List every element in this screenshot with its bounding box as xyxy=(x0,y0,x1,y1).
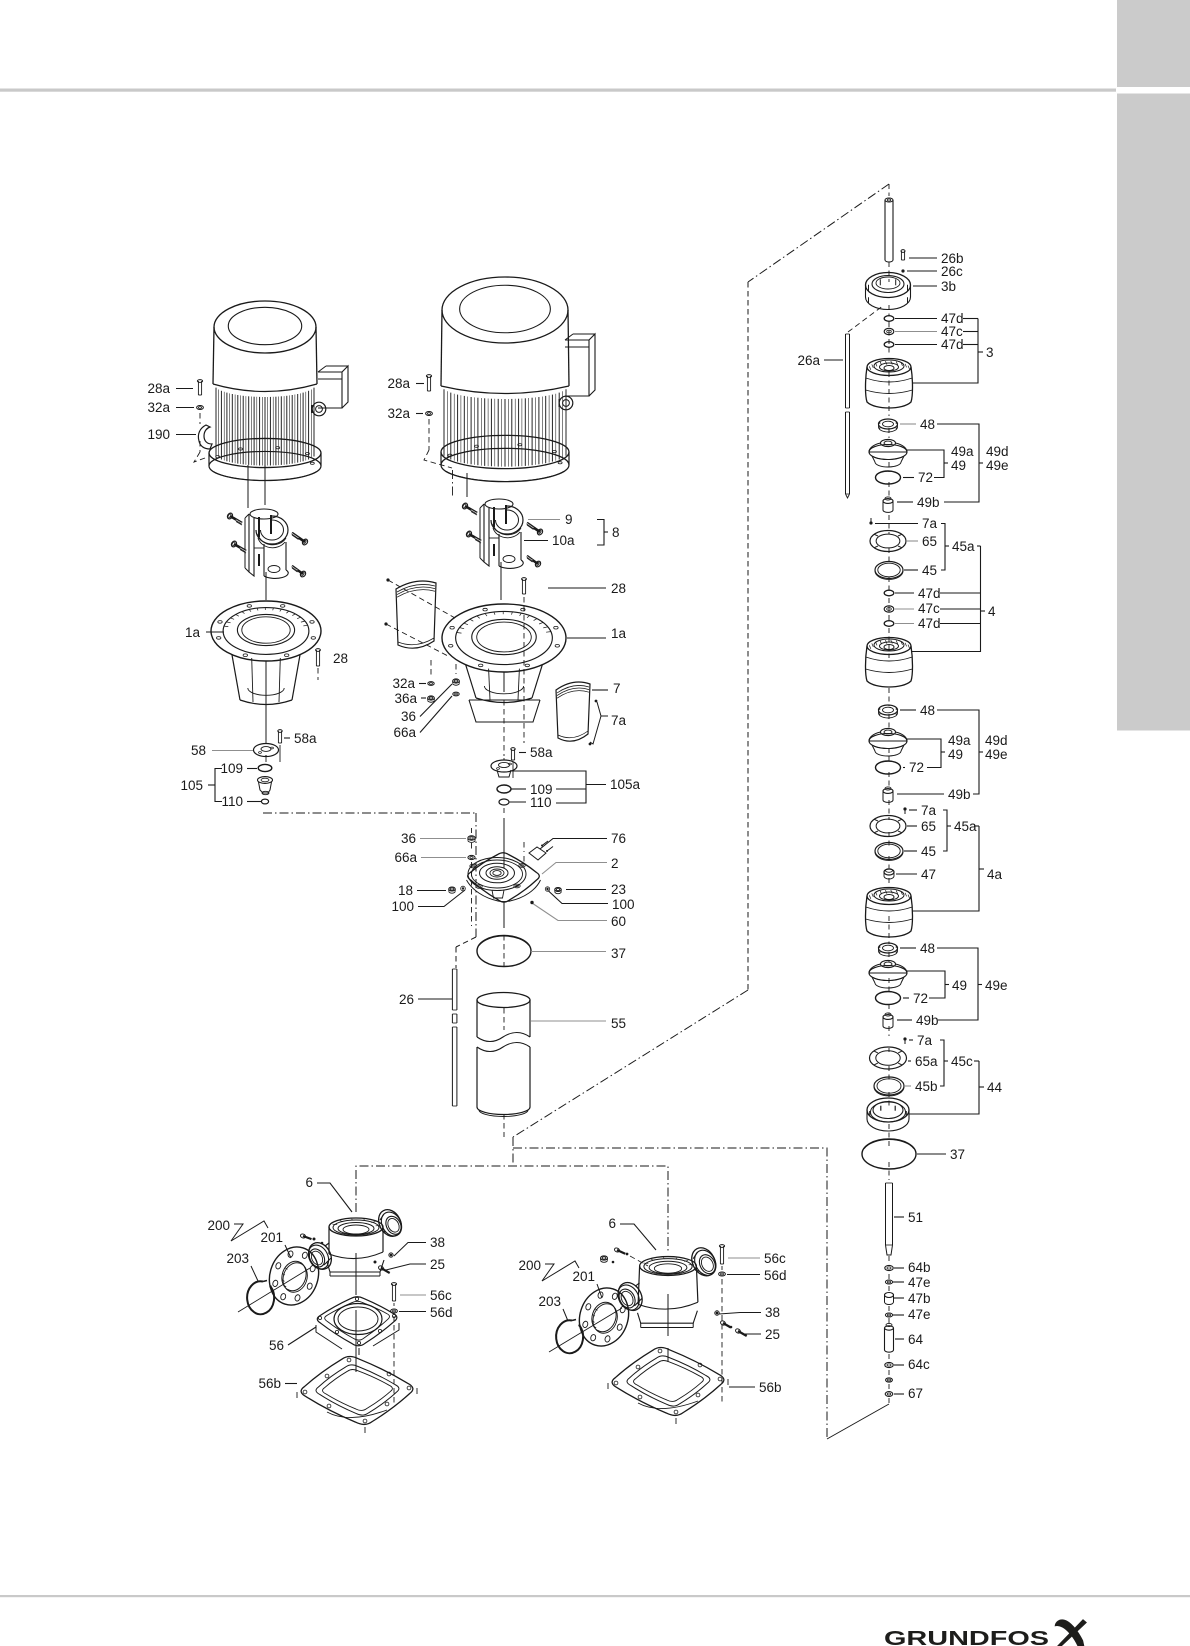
svg-text:28: 28 xyxy=(333,651,348,666)
svg-text:64b: 64b xyxy=(908,1260,931,1275)
svg-text:2: 2 xyxy=(611,856,619,871)
svg-text:28a: 28a xyxy=(387,376,410,391)
svg-text:26: 26 xyxy=(399,992,414,1007)
svg-text:49e: 49e xyxy=(985,747,1008,762)
svg-text:56d: 56d xyxy=(430,1305,453,1320)
svg-text:32a: 32a xyxy=(147,400,170,415)
svg-text:65a: 65a xyxy=(915,1054,938,1069)
svg-text:66a: 66a xyxy=(393,725,416,740)
svg-text:26c: 26c xyxy=(941,264,963,279)
svg-text:109: 109 xyxy=(220,761,243,776)
svg-text:47d: 47d xyxy=(918,616,941,631)
svg-text:10a: 10a xyxy=(552,533,575,548)
svg-text:49b: 49b xyxy=(948,787,971,802)
svg-text:56b: 56b xyxy=(759,1380,782,1395)
svg-text:9: 9 xyxy=(565,512,573,527)
svg-text:56b: 56b xyxy=(258,1376,281,1391)
svg-text:48: 48 xyxy=(920,417,935,432)
svg-text:32a: 32a xyxy=(392,676,415,691)
svg-text:58a: 58a xyxy=(294,731,317,746)
svg-text:23: 23 xyxy=(611,882,626,897)
svg-text:1a: 1a xyxy=(185,625,201,640)
svg-text:65: 65 xyxy=(921,819,936,834)
svg-text:GRUNDFOS: GRUNDFOS xyxy=(884,1628,1049,1646)
svg-text:47c: 47c xyxy=(918,601,940,616)
svg-text:3: 3 xyxy=(986,345,994,360)
svg-text:7a: 7a xyxy=(917,1033,933,1048)
svg-text:37: 37 xyxy=(611,946,626,961)
svg-text:6: 6 xyxy=(608,1216,616,1231)
svg-text:26a: 26a xyxy=(797,353,820,368)
svg-text:72: 72 xyxy=(909,760,924,775)
svg-text:49a: 49a xyxy=(951,444,974,459)
svg-text:66a: 66a xyxy=(394,850,417,865)
svg-text:45a: 45a xyxy=(954,819,977,834)
svg-text:72: 72 xyxy=(918,470,933,485)
svg-text:49: 49 xyxy=(948,747,963,762)
svg-text:58a: 58a xyxy=(530,745,553,760)
svg-text:1a: 1a xyxy=(611,626,627,641)
svg-text:105: 105 xyxy=(180,778,203,793)
svg-text:203: 203 xyxy=(226,1251,249,1266)
svg-text:49e: 49e xyxy=(986,458,1009,473)
svg-text:4: 4 xyxy=(988,604,996,619)
svg-text:37: 37 xyxy=(950,1147,965,1162)
svg-text:55: 55 xyxy=(611,1016,626,1031)
svg-text:56d: 56d xyxy=(764,1268,787,1283)
svg-text:7a: 7a xyxy=(922,516,938,531)
svg-text:45b: 45b xyxy=(915,1079,938,1094)
svg-text:6: 6 xyxy=(305,1175,313,1190)
svg-text:67: 67 xyxy=(908,1386,923,1401)
svg-text:201: 201 xyxy=(572,1269,595,1284)
svg-text:49: 49 xyxy=(952,978,967,993)
svg-text:7a: 7a xyxy=(611,713,627,728)
svg-text:45c: 45c xyxy=(951,1054,973,1069)
svg-text:64c: 64c xyxy=(908,1357,930,1372)
svg-text:44: 44 xyxy=(987,1080,1003,1095)
svg-text:49a: 49a xyxy=(948,733,971,748)
svg-text:8: 8 xyxy=(612,525,620,540)
svg-text:51: 51 xyxy=(908,1210,923,1225)
svg-text:190: 190 xyxy=(147,427,170,442)
svg-text:25: 25 xyxy=(430,1257,445,1272)
svg-text:49d: 49d xyxy=(985,733,1008,748)
svg-text:47d: 47d xyxy=(941,337,964,352)
svg-text:200: 200 xyxy=(207,1218,230,1233)
svg-text:32a: 32a xyxy=(387,406,410,421)
svg-text:49: 49 xyxy=(951,458,966,473)
svg-text:38: 38 xyxy=(765,1305,780,1320)
svg-text:110: 110 xyxy=(221,794,243,809)
svg-text:47e: 47e xyxy=(908,1275,931,1290)
svg-text:49b: 49b xyxy=(917,495,940,510)
svg-text:49e: 49e xyxy=(985,978,1008,993)
svg-text:56c: 56c xyxy=(764,1251,786,1266)
svg-text:72: 72 xyxy=(913,991,928,1006)
svg-text:201: 201 xyxy=(260,1230,283,1245)
svg-text:28: 28 xyxy=(611,581,626,596)
svg-text:203: 203 xyxy=(538,1294,561,1309)
svg-text:28a: 28a xyxy=(147,381,170,396)
svg-text:100: 100 xyxy=(391,899,414,914)
svg-text:100: 100 xyxy=(612,897,635,912)
svg-text:60: 60 xyxy=(611,914,626,929)
svg-text:56c: 56c xyxy=(430,1288,452,1303)
svg-text:3b: 3b xyxy=(941,279,956,294)
svg-text:45a: 45a xyxy=(952,539,975,554)
svg-text:58: 58 xyxy=(191,743,206,758)
svg-text:47b: 47b xyxy=(908,1291,931,1306)
svg-text:47e: 47e xyxy=(908,1307,931,1322)
svg-text:45: 45 xyxy=(922,563,937,578)
svg-text:65: 65 xyxy=(922,534,937,549)
svg-text:48: 48 xyxy=(920,703,935,718)
svg-text:64: 64 xyxy=(908,1332,924,1347)
svg-text:48: 48 xyxy=(920,941,935,956)
svg-text:36: 36 xyxy=(401,831,416,846)
svg-text:36a: 36a xyxy=(394,691,417,706)
svg-text:49b: 49b xyxy=(916,1013,939,1028)
svg-text:45: 45 xyxy=(921,844,936,859)
svg-text:76: 76 xyxy=(611,831,626,846)
svg-text:47: 47 xyxy=(921,867,936,882)
svg-text:36: 36 xyxy=(401,709,416,724)
svg-text:25: 25 xyxy=(765,1327,780,1342)
svg-text:200: 200 xyxy=(518,1258,541,1273)
svg-text:47d: 47d xyxy=(918,586,941,601)
svg-text:38: 38 xyxy=(430,1235,445,1250)
svg-text:7: 7 xyxy=(613,681,621,696)
svg-text:7a: 7a xyxy=(921,803,937,818)
svg-text:105a: 105a xyxy=(610,777,641,792)
svg-text:4a: 4a xyxy=(987,867,1003,882)
svg-text:110: 110 xyxy=(530,795,552,810)
svg-text:18: 18 xyxy=(398,883,413,898)
svg-text:49d: 49d xyxy=(986,444,1009,459)
svg-text:56: 56 xyxy=(269,1338,284,1353)
